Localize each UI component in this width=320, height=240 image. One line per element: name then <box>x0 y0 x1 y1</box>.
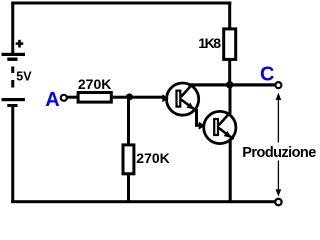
wire left rail top (battery + lead) <box>11 2 14 54</box>
resistor R1 270K horizontal <box>78 93 111 103</box>
wire left rail bottom (battery - lead) <box>11 107 14 204</box>
junction collector node <box>226 81 233 88</box>
wire Q2 emitter to bottom rail <box>229 139 232 204</box>
wire R1 to Q1 base <box>113 96 164 99</box>
transistor Q1 body circle <box>167 83 199 115</box>
wire R2 to bottom rail <box>127 174 130 203</box>
svg-text:1K8: 1K8 <box>198 35 221 51</box>
label battery + polarity <box>16 40 24 48</box>
wire base junction down to R2 <box>127 97 130 144</box>
node A terminal <box>61 95 67 101</box>
wire junction down to Q2 collector <box>229 84 232 114</box>
svg-text:C: C <box>260 63 274 85</box>
junction base divider node <box>126 93 133 100</box>
wire bottom rail <box>11 200 275 203</box>
transistor Q1 internals (base bar, collector, emitter, arrows) <box>162 85 196 111</box>
node C terminal <box>275 82 281 88</box>
wire junction to C terminal <box>230 83 276 86</box>
wire Q1 emitter to Q2 base <box>195 109 200 127</box>
transistor Q2 body circle <box>204 111 236 143</box>
wire Q1 collector to junction <box>189 83 230 86</box>
terminal production bottom <box>275 199 281 205</box>
svg-text:270K: 270K <box>136 150 169 166</box>
transistor Q2 internals (base bar, collector, emitter, arrows) <box>199 113 234 139</box>
svg-text:Produzione: Produzione <box>242 145 316 161</box>
arrow production span lower <box>276 161 282 197</box>
svg-text:270K: 270K <box>78 76 111 92</box>
wire top rail <box>11 2 231 5</box>
svg-text:A: A <box>45 89 59 111</box>
resistor R3 1K8 <box>224 29 236 60</box>
wire top rail to R3 <box>228 2 231 29</box>
battery B1 5V <box>2 53 26 107</box>
wire A terminal to R1 <box>67 96 79 99</box>
svg-text:5V: 5V <box>16 69 32 83</box>
arrow production span upper <box>276 93 282 143</box>
resistor R2 270K vertical <box>123 145 134 174</box>
wire R3 to collector node junction <box>228 60 231 87</box>
